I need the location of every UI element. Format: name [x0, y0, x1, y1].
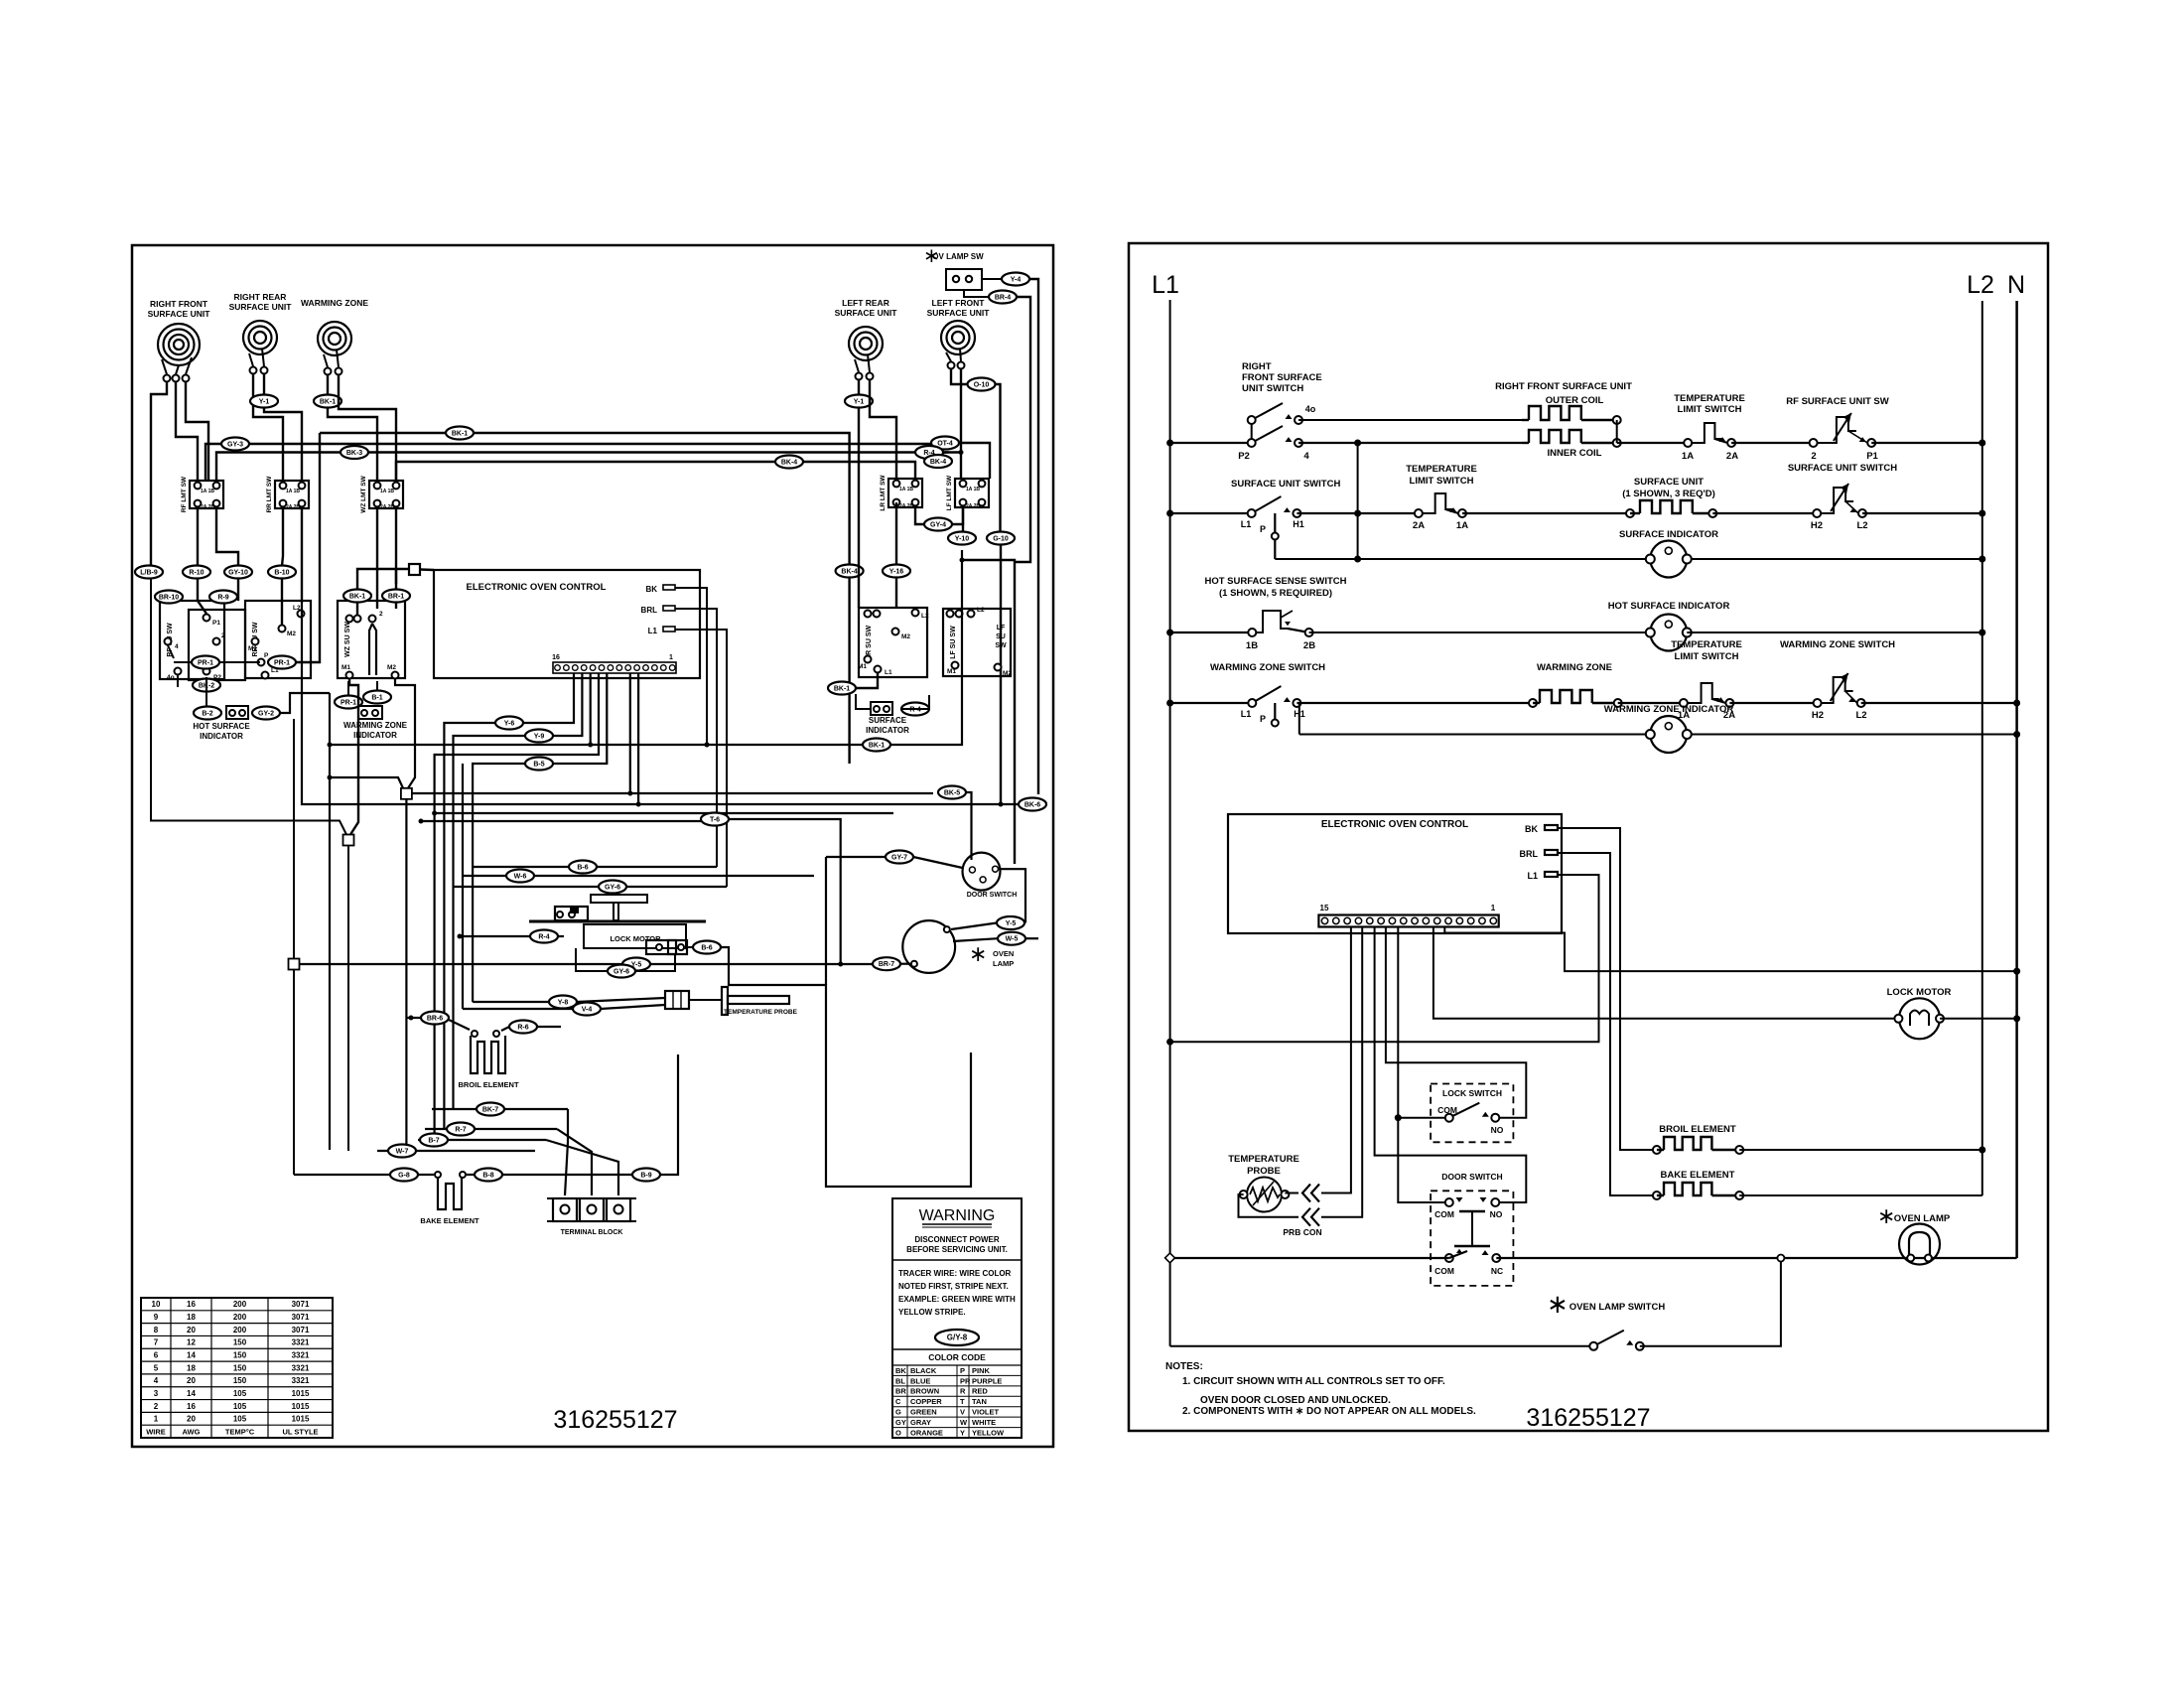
- svg-text:2. COMPONENTS WITH ∗ DO NO: 2. COMPONENTS WITH ∗ DO NOT APPEAR ON AL…: [1182, 1406, 1476, 1417]
- broil element (left): [421, 1012, 449, 1025]
- warming zone indicator pilot: [335, 696, 362, 709]
- wire switch to limit switch row2: [1297, 512, 1419, 514]
- svg-text:WIRE: WIRE: [146, 1427, 166, 1436]
- svg-text:RIGHT FRONT SURFACE UNIT: RIGHT FRONT SURFACE UNIT: [1495, 381, 1632, 392]
- svg-text:ORANGE: ORANGE: [910, 1428, 943, 1437]
- svg-text:OVEN LAMP: OVEN LAMP: [1894, 1213, 1951, 1224]
- svg-text:ELECTRONIC OVEN CONTROL: ELECTRONIC OVEN CONTROL: [467, 582, 607, 593]
- G/Y-8 oval example: [935, 1330, 979, 1345]
- svg-text:18: 18: [187, 1313, 196, 1322]
- junction square fan: [401, 788, 412, 799]
- svg-text:3321: 3321: [292, 1376, 310, 1385]
- svg-text:1A: 1A: [201, 489, 207, 494]
- svg-text:3321: 3321: [292, 1351, 310, 1360]
- svg-text:Y-4: Y-4: [1011, 277, 1022, 284]
- oval row left cluster: [135, 566, 163, 579]
- svg-text:200: 200: [233, 1313, 247, 1322]
- svg-text:TEMPERATURE: TEMPERATURE: [1671, 639, 1742, 650]
- svg-text:10: 10: [152, 1300, 161, 1309]
- svg-text:12: 12: [187, 1338, 196, 1347]
- svg-text:W-5: W-5: [1006, 936, 1019, 943]
- svg-text:LOCK SWITCH: LOCK SWITCH: [1442, 1088, 1502, 1098]
- svg-text:4o: 4o: [1305, 404, 1316, 414]
- LF surface unit switch: [943, 609, 1011, 676]
- svg-text:AWG: AWG: [183, 1427, 201, 1436]
- svg-text:Y-1: Y-1: [259, 399, 270, 406]
- svg-text:NOTED FIRST, STRIPE NEXT.: NOTED FIRST, STRIPE NEXT.: [898, 1282, 1009, 1291]
- svg-text:M2: M2: [1003, 670, 1012, 677]
- oval BR-4 lamp: [964, 290, 989, 297]
- svg-text:TEMPERATURE: TEMPERATURE: [1406, 464, 1477, 475]
- svg-text:RF SURFACE UNIT SW: RF SURFACE UNIT SW: [1786, 396, 1888, 407]
- bottom rail L1 to N: [1170, 1257, 1449, 1259]
- svg-text:3321: 3321: [292, 1363, 310, 1372]
- svg-text:GREEN: GREEN: [910, 1408, 937, 1417]
- N rail: [2015, 301, 2018, 1258]
- svg-text:3: 3: [154, 1389, 159, 1398]
- svg-text:G-8: G-8: [398, 1173, 410, 1180]
- svg-text:TEMPERATURE: TEMPERATURE: [1228, 1154, 1299, 1165]
- svg-text:W: W: [960, 1418, 968, 1427]
- warming zone P drop: [1274, 703, 1276, 719]
- oval PR-1 row: [174, 661, 192, 663]
- svg-text:BK-1: BK-1: [452, 431, 468, 438]
- svg-text:16: 16: [552, 654, 560, 661]
- svg-text:∗: ∗: [1547, 1289, 1569, 1319]
- electronic oven control box U1: [1228, 814, 1562, 933]
- probe left loop wire: [1239, 1194, 1299, 1217]
- svg-text:T: T: [960, 1397, 965, 1406]
- wire row3 L1 to sense switch: [1170, 631, 1253, 633]
- svg-text:BK-1: BK-1: [320, 399, 336, 406]
- svg-text:H1: H1: [1293, 519, 1304, 529]
- wire WZ drop to mid square: [349, 679, 358, 835]
- svg-text:1: 1: [1491, 904, 1496, 912]
- svg-text:T-6: T-6: [710, 817, 720, 824]
- svg-text:(1 SHOWN, 5 REQUIRED): (1 SHOWN, 5 REQUIRED): [1219, 588, 1332, 599]
- svg-text:COM: COM: [1434, 1266, 1454, 1276]
- svg-text:BK-5: BK-5: [944, 790, 960, 797]
- svg-text:BK-6: BK-6: [1024, 802, 1040, 809]
- svg-text:8: 8: [154, 1326, 159, 1334]
- svg-text:L2: L2: [977, 607, 985, 614]
- wire gauge table: [141, 1298, 333, 1438]
- svg-text:4: 4: [175, 643, 179, 650]
- svg-text:Y-16: Y-16: [889, 569, 904, 576]
- RR limit switch: [275, 481, 309, 508]
- svg-text:RF LMT SW: RF LMT SW: [181, 476, 188, 512]
- EOC pin wire to probe right: [1321, 926, 1351, 1193]
- svg-text:TAN: TAN: [972, 1397, 987, 1406]
- svg-text:105: 105: [233, 1389, 247, 1398]
- RF limit switch: [190, 481, 223, 508]
- svg-text:M1: M1: [341, 664, 350, 671]
- svg-text:NO: NO: [1491, 1125, 1504, 1135]
- svg-text:2B: 2B: [388, 504, 395, 510]
- svg-text:BR: BR: [895, 1387, 906, 1396]
- svg-text:TRACER WIRE: WIRE COLOR: TRACER WIRE: WIRE COLOR: [898, 1269, 1012, 1278]
- wire row3 to L2: [1687, 631, 1982, 633]
- svg-text:V: V: [960, 1408, 965, 1417]
- svg-text:SURFACE: SURFACE: [869, 716, 907, 725]
- fan row 799 through square: [330, 777, 403, 788]
- surface indicator pilot (right): [828, 682, 856, 695]
- svg-text:2B: 2B: [907, 503, 914, 509]
- svg-text:BLUE: BLUE: [910, 1376, 930, 1385]
- svg-text:L2: L2: [1967, 271, 1994, 299]
- svg-text:OVEN: OVEN: [993, 949, 1014, 958]
- lock motor assembly: [591, 895, 647, 903]
- left vertical to low square: [293, 719, 295, 959]
- svg-text:TEMPERATURE PROBE: TEMPERATURE PROBE: [724, 1009, 798, 1016]
- svg-text:SURFACE UNIT: SURFACE UNIT: [835, 308, 898, 318]
- wire bake to L2 end: [1739, 1194, 1982, 1196]
- door switch lower contacts on bottom rail: [1445, 1254, 1453, 1262]
- svg-text:BLACK: BLACK: [910, 1366, 937, 1375]
- svg-text:TEMPERATURE: TEMPERATURE: [1674, 393, 1745, 404]
- broil right oval: [501, 1027, 509, 1031]
- RR spiral drop wires: [253, 374, 283, 481]
- svg-text:∗: ∗: [969, 941, 987, 966]
- bake element (left): [435, 1172, 441, 1178]
- svg-text:LIMIT SWITCH: LIMIT SWITCH: [1678, 404, 1742, 415]
- svg-text:GY-7: GY-7: [891, 855, 907, 862]
- cross wire run3: [216, 453, 949, 482]
- wire row1 to L2: [1871, 442, 1982, 444]
- svg-text:Y-9: Y-9: [534, 734, 545, 741]
- probe wires and ovals: [473, 1001, 549, 1003]
- svg-text:2: 2: [1811, 451, 1816, 462]
- svg-text:V-4: V-4: [582, 1007, 593, 1014]
- svg-text:2: 2: [379, 611, 383, 618]
- svg-text:M2: M2: [387, 664, 396, 671]
- electronic oven control box (left): [434, 570, 700, 678]
- svg-text:B-10: B-10: [274, 570, 289, 577]
- svg-text:Y-8: Y-8: [558, 1000, 569, 1007]
- svg-text:WZ LMT SW: WZ LMT SW: [360, 475, 367, 512]
- EOC strip drop wire 1: [523, 673, 574, 723]
- svg-text:LOCK MOTOR: LOCK MOTOR: [610, 934, 661, 943]
- oval G-10: [987, 532, 1015, 545]
- svg-text:PR-1: PR-1: [341, 700, 356, 707]
- cross wire run1: [320, 433, 850, 764]
- lock motor feed vertical: [462, 764, 464, 1009]
- svg-text:L1: L1: [1241, 709, 1252, 719]
- wire LR L1 to BK-1 oval: [856, 673, 878, 688]
- svg-text:2B: 2B: [974, 503, 981, 509]
- EOC pin wire to door switch NO loop: [1375, 926, 1527, 1202]
- svg-text:20: 20: [187, 1376, 196, 1385]
- svg-text:GY-4: GY-4: [930, 522, 946, 529]
- svg-text:BK: BK: [1525, 824, 1538, 834]
- svg-text:P: P: [960, 1366, 965, 1375]
- svg-text:BROIL ELEMENT: BROIL ELEMENT: [458, 1080, 519, 1089]
- svg-text:R-6: R-6: [517, 1025, 528, 1032]
- hot surface sense switch: [1252, 611, 1288, 632]
- oven lamp (left): [902, 920, 955, 973]
- RR surface unit switch: [245, 601, 311, 678]
- svg-text:3071: 3071: [292, 1313, 310, 1322]
- svg-text:R-9: R-9: [217, 595, 228, 602]
- left verticals lower: [293, 970, 295, 1176]
- svg-text:WZ SU SW: WZ SU SW: [344, 622, 351, 657]
- svg-text:BR-4: BR-4: [995, 295, 1011, 302]
- svg-text:W-6: W-6: [514, 874, 527, 881]
- svg-text:FRONT SURFACE: FRONT SURFACE: [1242, 372, 1322, 383]
- svg-text:16: 16: [187, 1402, 196, 1411]
- svg-text:PR-1: PR-1: [274, 660, 290, 667]
- left vertical B row810: [302, 603, 1027, 804]
- svg-text:BK: BK: [895, 1366, 906, 1375]
- wire limit switch to RF surface unit sw: [1731, 442, 1814, 444]
- svg-text:18: 18: [187, 1363, 196, 1372]
- svg-text:N: N: [2007, 271, 2025, 299]
- svg-text:M2: M2: [287, 631, 296, 637]
- svg-text:INDICATOR: INDICATOR: [866, 726, 909, 735]
- svg-text:G/Y-8: G/Y-8: [947, 1333, 968, 1342]
- svg-text:150: 150: [233, 1376, 247, 1385]
- door switch feed from left: [826, 856, 886, 858]
- svg-text:B-7: B-7: [428, 1138, 439, 1145]
- svg-text:1A: 1A: [966, 487, 973, 492]
- svg-text:200: 200: [233, 1326, 247, 1334]
- svg-text:H2: H2: [1812, 710, 1824, 721]
- svg-text:2: 2: [154, 1402, 159, 1411]
- svg-text:NOTES:: NOTES:: [1165, 1361, 1203, 1372]
- EOC pin wire to N upper: [1444, 926, 2016, 971]
- svg-text:H2: H2: [1811, 520, 1823, 531]
- svg-text:RED: RED: [972, 1387, 988, 1396]
- svg-text:1B: 1B: [294, 489, 301, 494]
- svg-text:LEFT REAR: LEFT REAR: [842, 298, 889, 308]
- wire from B-6 oval down and right: [721, 947, 971, 1187]
- wire switch to warming zone coil: [1297, 702, 1533, 704]
- svg-text:105: 105: [233, 1415, 247, 1424]
- svg-text:L2: L2: [921, 613, 929, 620]
- svg-text:BROWN: BROWN: [910, 1387, 939, 1396]
- wire coil to surface unit switch row2: [1712, 512, 1817, 514]
- svg-text:4o: 4o: [167, 674, 175, 681]
- lock switch S1: [1431, 1084, 1513, 1143]
- svg-text:2A: 2A: [1413, 520, 1425, 531]
- svg-text:BR-6: BR-6: [427, 1016, 443, 1023]
- WZ switch: [338, 601, 405, 678]
- fan rows right B-6 W-6 GY-6: [473, 866, 569, 868]
- svg-text:M1: M1: [248, 645, 257, 652]
- svg-text:B-6: B-6: [577, 865, 588, 872]
- svg-text:BK-1: BK-1: [834, 686, 850, 693]
- svg-text:B-6: B-6: [701, 945, 712, 952]
- wire lock motor to N: [1940, 1018, 2017, 1020]
- svg-text:BK-4: BK-4: [841, 569, 857, 576]
- svg-text:P: P: [1260, 714, 1266, 724]
- svg-text:BAKE ELEMENT: BAKE ELEMENT: [1661, 1170, 1735, 1181]
- svg-text:INDICATOR: INDICATOR: [200, 732, 243, 741]
- svg-text:LF: LF: [997, 625, 1006, 631]
- temperature probe (left): [665, 991, 689, 1009]
- wire limit switch to warming zone switch: [1729, 702, 1817, 704]
- wire BK pin to Y-10 drop: [863, 739, 890, 752]
- svg-text:BR-7: BR-7: [879, 961, 894, 968]
- svg-text:BAKE ELEMENT: BAKE ELEMENT: [420, 1216, 479, 1225]
- svg-text:WARMING ZONE SWITCH: WARMING ZONE SWITCH: [1210, 662, 1325, 673]
- bake wire row: [294, 1174, 390, 1176]
- svg-text:UNIT SWITCH: UNIT SWITCH: [1242, 383, 1303, 394]
- LF spiral drop wires: [951, 369, 967, 384]
- svg-text:15: 15: [1320, 904, 1329, 912]
- svg-text:Y-5: Y-5: [1006, 920, 1017, 927]
- EOC pin wire to lock motor: [1433, 926, 1899, 1019]
- EOC strip drop wire 2: [553, 673, 582, 736]
- terminal block: [553, 1198, 577, 1221]
- svg-text:PROBE: PROBE: [1247, 1166, 1281, 1177]
- svg-text:M1: M1: [858, 663, 867, 670]
- svg-text:BR-10: BR-10: [159, 595, 179, 602]
- svg-text:1: 1: [154, 1415, 159, 1424]
- svg-text:HOT SURFACE: HOT SURFACE: [193, 722, 250, 731]
- svg-text:7: 7: [154, 1338, 159, 1347]
- svg-text:GY-2: GY-2: [258, 711, 274, 718]
- svg-text:L2: L2: [1856, 520, 1867, 531]
- RF unit switch upper pole 4o: [1251, 420, 1253, 439]
- svg-text:GY: GY: [895, 1418, 906, 1427]
- warning box: [892, 1198, 1022, 1438]
- cross wire run4: [396, 462, 915, 481]
- svg-text:BK-3: BK-3: [346, 450, 362, 457]
- svg-text:HOT SURFACE SENSE SWITCH: HOT SURFACE SENSE SWITCH: [1204, 576, 1346, 587]
- svg-text:L1: L1: [648, 627, 658, 635]
- oval Y-10: [962, 507, 964, 532]
- svg-text:WARMING ZONE: WARMING ZONE: [1537, 662, 1612, 673]
- svg-text:1B: 1B: [388, 489, 395, 494]
- junction square on EOC top wire: [409, 564, 420, 575]
- svg-text:14: 14: [187, 1351, 196, 1360]
- svg-text:TERMINAL BLOCK: TERMINAL BLOCK: [561, 1229, 623, 1236]
- svg-text:2: 2: [221, 632, 225, 639]
- EOC strip drop wire 7: [637, 673, 639, 804]
- cross wire run2: [205, 444, 931, 481]
- WZ spiral drop wires: [327, 375, 329, 395]
- EOC pin wire to lock/door COM: [1398, 926, 1449, 1202]
- svg-text:B-1: B-1: [371, 695, 382, 702]
- svg-text:PURPLE: PURPLE: [972, 1376, 1002, 1385]
- oval GY-4 bridge: [915, 507, 924, 524]
- svg-text:WARMING ZONE INDICATOR: WARMING ZONE INDICATOR: [1604, 704, 1734, 715]
- svg-text:L1: L1: [1527, 871, 1538, 881]
- EOC L1 wire right: [675, 630, 727, 887]
- door switch plunger: [1459, 1210, 1485, 1212]
- svg-text:1B: 1B: [208, 489, 215, 494]
- svg-text:SURFACE UNIT: SURFACE UNIT: [229, 302, 293, 312]
- svg-text:P: P: [264, 652, 269, 659]
- svg-text:1. CIRCUIT SHOWN WITH ALL CON: 1. CIRCUIT SHOWN WITH ALL CONTROLS SET T…: [1182, 1376, 1445, 1387]
- svg-text:PR-1: PR-1: [198, 660, 213, 667]
- svg-text:2A: 2A: [380, 504, 387, 510]
- P terminal drop row2: [1274, 513, 1276, 559]
- svg-text:150: 150: [233, 1351, 247, 1360]
- svg-text:BK-4: BK-4: [781, 460, 797, 467]
- warming zone indicator row: [1299, 734, 1651, 736]
- svg-text:BL: BL: [895, 1376, 905, 1385]
- svg-text:BK-4: BK-4: [930, 459, 946, 466]
- left long vertical A to mid square: [151, 578, 346, 835]
- oven lamp ovals: [998, 932, 1025, 945]
- wire broil to L2: [1739, 1149, 1982, 1151]
- svg-text:LOCK MOTOR: LOCK MOTOR: [1887, 987, 1952, 998]
- svg-text:LEFT FRONT: LEFT FRONT: [932, 298, 986, 308]
- svg-text:RR LMT SW: RR LMT SW: [266, 476, 273, 513]
- svg-text:SURFACE UNIT: SURFACE UNIT: [148, 309, 211, 319]
- oval Y-4 lamp: [982, 278, 1002, 280]
- surface indicator feed wire: [1357, 443, 1359, 559]
- svg-text:WARNING: WARNING: [919, 1207, 996, 1224]
- L2 rail: [1981, 301, 1983, 1195]
- svg-text:LIMIT SWITCH: LIMIT SWITCH: [1410, 476, 1474, 487]
- svg-text:OVEN LAMP SWITCH: OVEN LAMP SWITCH: [1570, 1302, 1666, 1313]
- lock motor ovals: [530, 930, 558, 943]
- svg-text:WHITE: WHITE: [972, 1418, 996, 1427]
- LF limit switch: [955, 479, 989, 507]
- svg-text:YELLOW STRIPE.: YELLOW STRIPE.: [898, 1308, 966, 1317]
- svg-text:COM: COM: [1434, 1209, 1454, 1219]
- fan row 819: [395, 679, 415, 788]
- wire row3 to hot surface indicator: [1309, 631, 1651, 633]
- svg-text:(1 SHOWN, 3 REQ'D): (1 SHOWN, 3 REQ'D): [1622, 489, 1715, 499]
- svg-text:BRL: BRL: [1520, 849, 1539, 859]
- svg-text:2A: 2A: [966, 503, 973, 509]
- svg-text:P1: P1: [1866, 451, 1878, 462]
- warming zone switch poles: [1252, 686, 1281, 703]
- surface indicator row: [1275, 558, 1650, 560]
- lamp switch feed wires: [1029, 279, 1038, 794]
- svg-text:LIMIT SWITCH: LIMIT SWITCH: [1675, 651, 1739, 662]
- svg-text:UL STYLE: UL STYLE: [282, 1427, 318, 1436]
- svg-text:316255127: 316255127: [553, 1406, 677, 1434]
- svg-text:1A: 1A: [899, 487, 906, 492]
- svg-text:O-10: O-10: [974, 382, 990, 389]
- svg-text:L2: L2: [293, 605, 301, 612]
- wire to lock switch COM: [1398, 1117, 1449, 1119]
- mid square down vertical: [347, 846, 349, 1152]
- RF surface unit switch: [160, 601, 224, 679]
- right schematic panel border: [1129, 243, 2048, 1431]
- svg-text:BK-1: BK-1: [869, 743, 885, 750]
- terminal block feed wires: [565, 1109, 568, 1195]
- LR limit switch: [888, 479, 922, 507]
- wire gy2 to vertical: [280, 693, 330, 713]
- row 825 to lamp: [421, 820, 701, 822]
- svg-text:P2: P2: [1238, 451, 1250, 462]
- wire row4 to N: [1861, 702, 2017, 704]
- EOC pin wire to lock switch loop: [1386, 926, 1526, 1118]
- EOC strip drop wire 5: [553, 673, 607, 764]
- svg-text:OVEN DOOR CLOSED AND UNLOCKED.: OVEN DOOR CLOSED AND UNLOCKED.: [1200, 1395, 1391, 1406]
- RF unit switch lower pole 4: [1252, 426, 1283, 443]
- svg-text:M1: M1: [947, 668, 956, 675]
- svg-text:3321: 3321: [292, 1338, 310, 1347]
- bake ovals: [390, 1169, 418, 1182]
- svg-text:1015: 1015: [292, 1415, 310, 1424]
- svg-text:O: O: [895, 1428, 901, 1437]
- svg-text:COPPER: COPPER: [910, 1397, 942, 1406]
- EOC BK wire right: [675, 588, 707, 745]
- svg-text:LR LMT SW: LR LMT SW: [880, 475, 887, 511]
- svg-text:R-7: R-7: [455, 1127, 466, 1134]
- LR spiral drop wires: [858, 380, 860, 395]
- svg-text:105: 105: [233, 1402, 247, 1411]
- svg-text:SURFACE UNIT SWITCH: SURFACE UNIT SWITCH: [1231, 479, 1340, 490]
- svg-text:R: R: [960, 1387, 966, 1396]
